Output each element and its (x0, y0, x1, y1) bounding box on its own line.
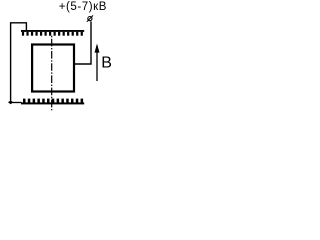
svg-text:В: В (101, 55, 112, 72)
svg-text:+(5-7)кВ: +(5-7)кВ (59, 1, 107, 13)
